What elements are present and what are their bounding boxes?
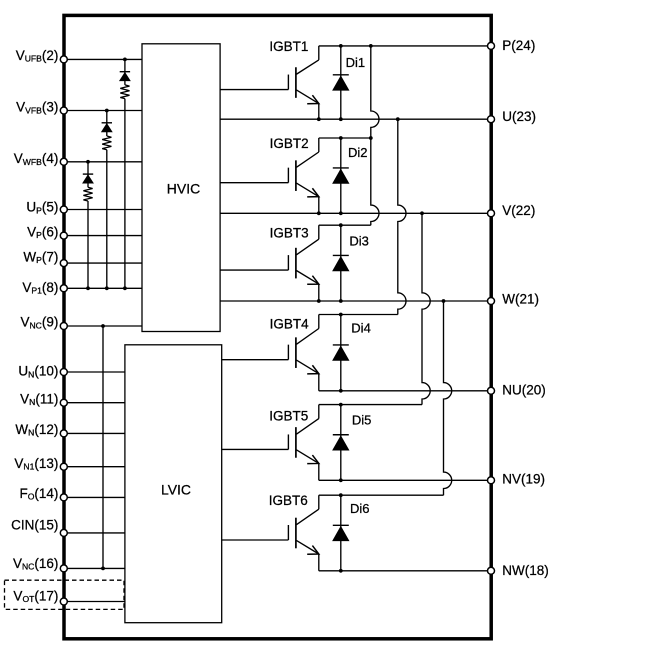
pin WP(7) wire and terminal <box>23 250 142 267</box>
svg-text:CIN(15): CIN(15) <box>11 518 58 533</box>
pin CIN(15) wire and terminal <box>11 518 125 537</box>
pin VN(11) wire and terminal <box>20 391 125 407</box>
transistor IGBT1 <box>220 39 319 119</box>
transistor IGBT2 <box>220 136 319 214</box>
dashed option box around VOT(17) <box>5 580 125 609</box>
wire P feed down to IGBT2/IGBT3 collector rails (hops U,V) <box>371 46 379 225</box>
wire U feed down to IGBT4 collector rail (hops V,W) <box>398 119 406 314</box>
svg-text:IGBT4: IGBT4 <box>270 316 310 331</box>
svg-text:VN(11): VN(11) <box>20 391 58 407</box>
wire IGBT3 collector rail <box>319 223 371 227</box>
wire IGBT4 collector rail <box>319 313 398 317</box>
svg-text:P(24): P(24) <box>502 38 535 53</box>
svg-text:V(22): V(22) <box>502 203 535 218</box>
svg-text:IGBT2: IGBT2 <box>270 136 309 151</box>
wire V feed down to IGBT5 collector rail (hops W,NU) <box>422 213 430 404</box>
bootstrap resistor R1 <box>120 85 129 290</box>
svg-text:VP(6): VP(6) <box>27 224 58 240</box>
wire IGBT5 collector rail <box>319 403 422 407</box>
transistor IGBT6 <box>222 493 319 571</box>
svg-text:Di4: Di4 <box>351 321 371 336</box>
wire V rail (pin 22, IGBT2 emitter, IGBT5 collector feed) <box>220 211 491 215</box>
svg-text:UP(5): UP(5) <box>26 200 58 216</box>
svg-text:IGBT1: IGBT1 <box>269 39 308 54</box>
svg-text:Di3: Di3 <box>349 234 369 249</box>
pin VUFB(2) wire and terminal <box>16 48 142 64</box>
wire IGBT2 collector rail <box>319 136 373 140</box>
pin VNC(9) wire and terminal <box>20 315 142 331</box>
svg-text:UN(10): UN(10) <box>18 364 58 380</box>
IC U2 LVIC (low-voltage gate driver) <box>125 345 222 623</box>
diode Di4 (freewheel) <box>333 315 371 391</box>
pin VWFB(4) wire and terminal <box>14 151 142 167</box>
wire P rail (pin 24 to IGBT1/2/3 collectors) <box>319 44 491 48</box>
svg-text:NW(18): NW(18) <box>502 563 549 578</box>
pin VNC(16) wire and terminal <box>13 556 125 572</box>
IC U1 HVIC (high-voltage gate driver) <box>142 44 220 332</box>
pin VVFB(3) wire and terminal <box>16 100 142 116</box>
pin V(22) terminal <box>488 203 536 218</box>
wire NV rail (pin 19, IGBT5 emitter) <box>319 478 491 482</box>
pin U(23) terminal <box>488 109 537 124</box>
wire W feed down to IGBT6 collector rail (hops NU,NV) <box>444 301 452 495</box>
wire NU rail (pin 20, IGBT4 emitter) <box>319 389 491 393</box>
bootstrap diode D1 <box>120 58 130 85</box>
pin UN(10) wire and terminal <box>18 364 124 380</box>
svg-text:VOT(17): VOT(17) <box>13 588 58 604</box>
svg-text:IGBT6: IGBT6 <box>269 493 308 508</box>
svg-text:HVIC: HVIC <box>167 181 200 197</box>
transistor IGBT3 <box>220 225 319 301</box>
diode Di5 (freewheel) <box>333 405 372 481</box>
svg-text:WP(7): WP(7) <box>23 250 58 266</box>
bootstrap resistor R3 <box>83 187 92 290</box>
diode Di6 (freewheel) <box>333 495 370 571</box>
bootstrap diode D2 <box>102 109 112 136</box>
svg-text:VN1(13): VN1(13) <box>14 456 58 472</box>
svg-text:Di2: Di2 <box>348 145 368 160</box>
svg-text:W(21): W(21) <box>502 292 539 307</box>
diode Di1 (freewheel) <box>333 46 365 119</box>
svg-text:NU(20): NU(20) <box>502 383 546 398</box>
pin VP(6) wire and terminal <box>27 224 142 240</box>
svg-text:Di1: Di1 <box>346 55 366 70</box>
svg-text:U(23): U(23) <box>502 109 536 124</box>
svg-text:Di5: Di5 <box>352 413 372 428</box>
pin WN(12) wire and terminal <box>15 422 124 438</box>
svg-text:NV(19): NV(19) <box>502 471 545 486</box>
svg-text:IGBT5: IGBT5 <box>269 409 308 424</box>
transistor IGBT4 <box>222 315 319 391</box>
transistor IGBT5 <box>222 405 319 481</box>
wire VNC bus (pin 9 to pin 16) <box>101 324 105 570</box>
wire NW rail (pin 18, IGBT6 emitter) <box>319 569 491 573</box>
pin VP1(8) wire and terminal <box>22 280 142 296</box>
pin UP(5) wire and terminal <box>26 200 142 216</box>
svg-text:Di6: Di6 <box>350 501 370 516</box>
wire U rail (pin 23, IGBT1 emitter, IGBT4 collector feed) <box>220 117 491 121</box>
diode Di2 (freewheel) <box>333 138 368 213</box>
bootstrap resistor R2 <box>102 136 111 290</box>
pin NV(19) terminal <box>488 471 546 486</box>
pin P(24) terminal <box>488 38 536 53</box>
wire IGBT6 collector rail <box>319 493 444 497</box>
svg-text:LVIC: LVIC <box>161 482 191 498</box>
pin VOT(17) wire and terminal <box>13 588 124 605</box>
pin VN1(13) wire and terminal <box>14 456 125 472</box>
pin FO(14) wire and terminal <box>19 486 124 502</box>
bootstrap diode D3 <box>83 160 93 187</box>
pin NU(20) terminal <box>488 383 546 398</box>
pin NW(18) terminal <box>488 563 549 578</box>
module outline frame <box>64 15 491 638</box>
wire W rail (pin 21, IGBT3 emitter, IGBT6 collector feed) <box>220 299 491 303</box>
svg-text:IGBT3: IGBT3 <box>270 226 309 241</box>
svg-text:FO(14): FO(14) <box>19 486 58 502</box>
pin W(21) terminal <box>488 292 540 307</box>
svg-text:WN(12): WN(12) <box>15 422 58 438</box>
diode Di3 (freewheel) <box>333 225 369 301</box>
svg-text:VNC(16): VNC(16) <box>13 556 58 572</box>
